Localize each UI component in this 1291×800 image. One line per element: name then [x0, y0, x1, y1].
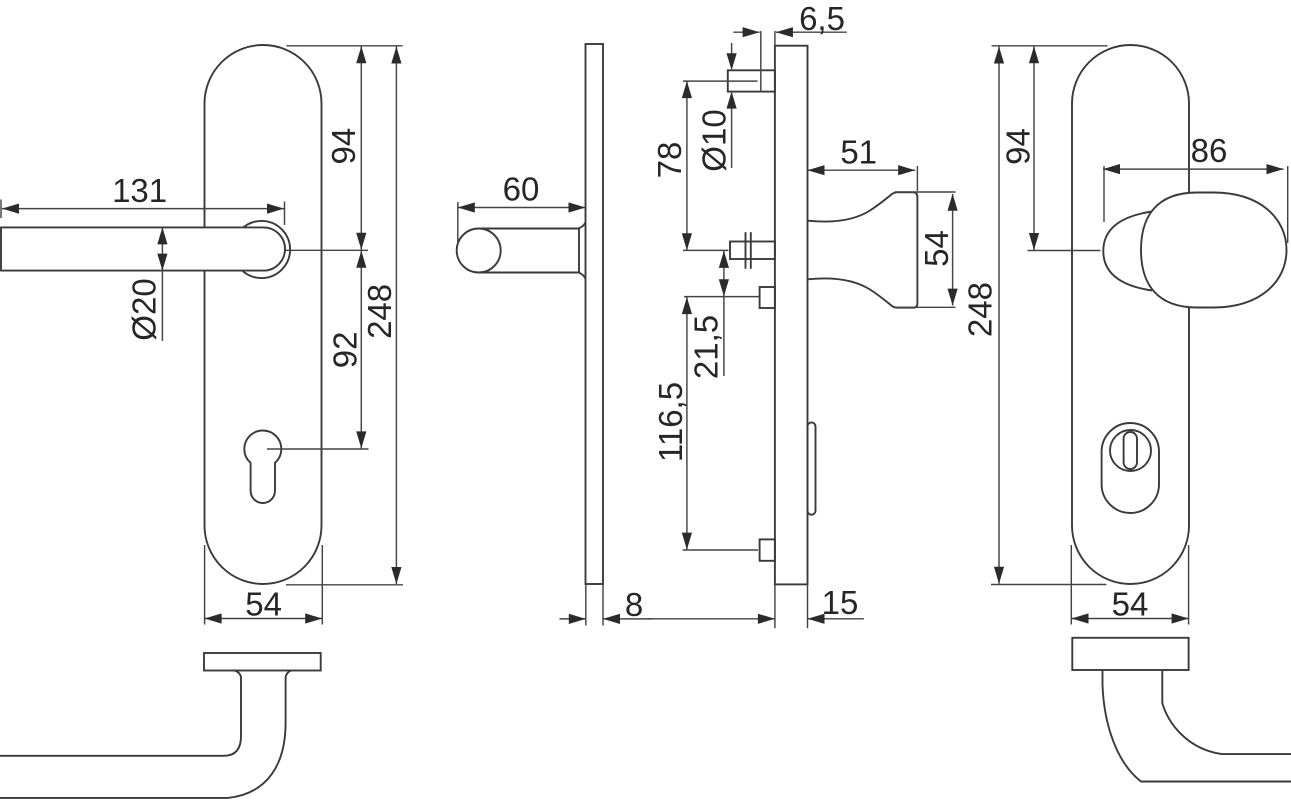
dim 78 bolt to spindle: [651, 81, 758, 250]
dim 21,5 spindle to boss: [688, 251, 730, 379]
svg-text:94: 94: [999, 128, 1036, 165]
extension line keyhole center: [267, 448, 369, 450]
svg-text:Ø10: Ø10: [696, 109, 733, 171]
centerline knob axis: [1028, 250, 1101, 252]
svg-text:60: 60: [503, 171, 540, 208]
rose: lever neck circle: [233, 221, 290, 278]
cylinder cover side view: [808, 422, 816, 514]
extension line plate bottom v1: [286, 584, 403, 586]
dim 86 knob length: [1103, 132, 1288, 243]
knob rose disc top view: [1072, 638, 1188, 670]
keyhole: euro profile cylinder cutout: [244, 430, 281, 503]
dim 248 plate height v1: [361, 47, 402, 585]
extension line boss upper center: [684, 296, 759, 298]
plate: outside backplate front view: [1072, 45, 1189, 584]
cylinder cover circle: [1110, 430, 1151, 471]
screw boss lower: [760, 539, 775, 560]
dim 92 lever axis to cylinder: [326, 251, 366, 449]
fixing bolt top O10: [728, 70, 775, 91]
dim 54 plate width v1: [205, 545, 323, 625]
knob collar front view: [1103, 212, 1152, 291]
dim 60 lever projection: [458, 171, 586, 244]
extension line plate top v4: [992, 45, 1108, 47]
plate side view 15mm outside: [775, 46, 808, 585]
svg-text:15: 15: [822, 584, 859, 621]
dim 6,5 bolt protrusion: [733, 0, 847, 92]
dim 8 plate thickness: [560, 584, 653, 626]
svg-text:54: 54: [245, 586, 282, 623]
lever side view with neck flare: [457, 222, 586, 278]
dim 51 knob projection: [808, 134, 918, 191]
knob side view trumpet profile: [808, 192, 918, 307]
dim O20 lever diameter: [126, 227, 168, 341]
lever grip top view lower left: [0, 671, 291, 798]
svg-text:21,5: 21,5: [688, 315, 725, 379]
screw boss upper: [760, 287, 775, 308]
svg-text:131: 131: [112, 172, 167, 209]
svg-text:248: 248: [361, 284, 398, 339]
svg-text:51: 51: [840, 134, 877, 171]
spindle washer: [746, 232, 751, 269]
dim 54 knob face height: [895, 192, 958, 307]
svg-text:54: 54: [1112, 586, 1149, 623]
extension line plate top v1: [286, 45, 402, 47]
svg-text:6,5: 6,5: [799, 0, 845, 37]
knob grip top view lower right: [1103, 670, 1291, 782]
svg-text:248: 248: [961, 282, 998, 337]
extension line plate bottom v4: [991, 584, 1106, 586]
dim 15 plate thickness outside: [648, 584, 864, 628]
svg-text:8: 8: [625, 586, 643, 623]
dim 54 plate width v4: [1071, 545, 1188, 625]
svg-text:92: 92: [326, 332, 363, 369]
dim 94 top to lever axis v1: [325, 46, 366, 250]
plate side view 8mm inside: [586, 44, 604, 584]
svg-text:54: 54: [918, 230, 955, 267]
rose disc: lever rose top view: [204, 653, 321, 671]
dim 116,5 boss spacing: [652, 297, 758, 550]
knob front view egg shape: [1141, 193, 1287, 308]
dim 131 lever length: [1, 172, 285, 225]
spindle square: [730, 242, 775, 260]
dim 94 top to knob axis v4: [999, 46, 1039, 250]
svg-text:Ø20: Ø20: [126, 278, 163, 340]
dim 248 plate height v4: [961, 47, 1004, 584]
svg-text:78: 78: [651, 142, 688, 179]
svg-text:94: 94: [325, 128, 362, 165]
lever: handle bar with rounded end: [1, 227, 285, 270]
security rosette oval: [1102, 423, 1159, 513]
plate: inside backplate front view (54 x 248): [205, 45, 322, 584]
svg-text:116,5: 116,5: [652, 382, 689, 462]
dim O10 bolt diameter: [696, 43, 737, 172]
cylinder cover slot: [1124, 432, 1137, 469]
centerline lever axis: [286, 249, 369, 251]
svg-text:86: 86: [1191, 132, 1228, 169]
